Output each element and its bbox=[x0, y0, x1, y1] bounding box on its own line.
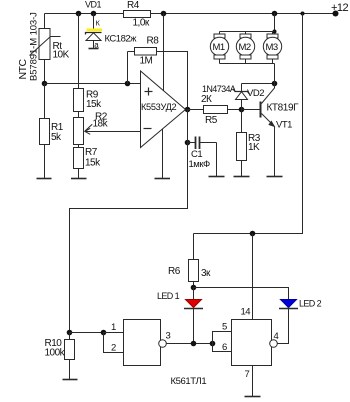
wire: gate2 pin14 supply bbox=[252, 234, 254, 320]
ground (R7) bbox=[71, 178, 87, 180]
ground (C1) bbox=[209, 176, 225, 178]
svg-text:3: 3 bbox=[166, 331, 171, 342]
svg-text:КТ819Г: КТ819Г bbox=[267, 103, 300, 114]
motor M1 bbox=[219, 32, 221, 35]
wire: R6 bottom lead bbox=[193, 282, 195, 288]
wire: VD2 cathode to collector node bbox=[242, 83, 275, 85]
svg-text:2К: 2К bbox=[201, 94, 212, 105]
resistor R3 bbox=[237, 133, 247, 161]
node F: pin14 supply tap bbox=[250, 231, 256, 237]
wire: divider feed from rail (crosses node wire, no junction) bbox=[78, 14, 80, 89]
resistor R7 bbox=[74, 148, 84, 169]
svg-text:1N4734A: 1N4734A bbox=[202, 84, 236, 94]
ground (VT1 emitter) bbox=[267, 176, 283, 178]
svg-text:LED 1: LED 1 bbox=[157, 291, 180, 301]
wire: base node to transistor base bbox=[242, 109, 261, 111]
node I: R10 junction bbox=[67, 330, 73, 336]
svg-text:6: 6 bbox=[222, 342, 227, 353]
wire: output to R5 bbox=[186, 109, 204, 111]
svg-text:VD1: VD1 bbox=[85, 0, 102, 10]
svg-text:R8: R8 bbox=[147, 36, 160, 47]
wire: node A to op-amp non-inverting input bbox=[45, 83, 141, 85]
logic gate DD1.2 (K561TL1) bbox=[232, 320, 272, 366]
logic gate DD1.1 (K561TL1) bbox=[124, 320, 161, 366]
wire: R9 to R2 bbox=[78, 112, 80, 118]
ground (VD1 anode) bbox=[89, 48, 99, 50]
wire: motor top bus bbox=[220, 31, 275, 33]
svg-text:К561ТЛ1: К561ТЛ1 bbox=[171, 376, 207, 387]
svg-text:3к: 3к bbox=[201, 268, 211, 279]
node: rail tap R6/K561 supply bbox=[301, 12, 305, 16]
svg-text:14: 14 bbox=[241, 307, 251, 318]
wire: R1 bottom lead bbox=[44, 145, 46, 179]
node B: non-inverting input / R8 feedback junction bbox=[125, 81, 131, 87]
svg-text:5: 5 bbox=[222, 322, 227, 333]
resistor R9 bbox=[74, 89, 84, 112]
svg-text:4: 4 bbox=[274, 331, 279, 342]
svg-text:VT1: VT1 bbox=[276, 120, 292, 131]
svg-text:R6: R6 bbox=[168, 266, 181, 277]
wire: bottom bus to collector node bbox=[274, 64, 276, 84]
svg-text:К553УД2: К553УД2 bbox=[141, 102, 177, 112]
wire: R2 to R7 bbox=[78, 145, 80, 148]
svg-text:М2: М2 bbox=[239, 42, 251, 53]
wire: R5 to base node bbox=[228, 109, 242, 111]
svg-text:1: 1 bbox=[111, 322, 116, 333]
wire: C1 to ground bbox=[216, 143, 218, 177]
node K: LED1 cathode junction bbox=[191, 341, 197, 347]
wire: gate1 pin1 bbox=[104, 332, 124, 334]
node E: collector node bbox=[272, 81, 278, 87]
wire: gate2 pin5 bbox=[213, 332, 232, 344]
wire: R3 bottom lead bbox=[241, 161, 243, 177]
svg-text:R5: R5 bbox=[205, 115, 218, 126]
ground (R10) bbox=[63, 379, 78, 381]
wire: motor feed drop from rail bbox=[274, 14, 276, 32]
svg-text:15k: 15k bbox=[85, 158, 101, 169]
svg-text:100k: 100k bbox=[45, 348, 66, 359]
wire: LED2 cathode to gate2 output bbox=[277, 309, 289, 344]
wire: gate2 pin6 bbox=[213, 344, 232, 352]
svg-text:М1: М1 bbox=[213, 42, 225, 53]
wire: gate1 output to gate2 inputs bbox=[167, 343, 213, 345]
svg-text:1М: 1М bbox=[140, 56, 153, 67]
wire: R2 wiper to op-amp inverting input bbox=[85, 131, 141, 133]
node: rail tap VD1 bbox=[91, 11, 97, 17]
svg-text:LED 2: LED 2 bbox=[299, 299, 322, 309]
ground (op-amp V-) bbox=[155, 178, 171, 180]
svg-text:VD2: VD2 bbox=[247, 88, 264, 99]
node J: gate1 input tie bbox=[101, 330, 107, 336]
wire: feedback from output node to logic input bbox=[70, 110, 188, 333]
wire: gate2 output pin4 bbox=[278, 343, 289, 345]
wire: tie-down to pin2 bbox=[104, 333, 124, 353]
node A: thermistor divider junction bbox=[42, 81, 48, 87]
ground (R3) bbox=[234, 176, 250, 178]
node D: transistor base node bbox=[239, 107, 245, 113]
node: rail tap op-amp V+ bbox=[161, 11, 167, 17]
potentiometer R2 bbox=[74, 118, 84, 145]
wire: op-amp V+ supply pin bbox=[163, 14, 165, 91]
svg-text:2: 2 bbox=[111, 343, 116, 354]
svg-text:R7: R7 bbox=[85, 147, 98, 158]
wire: R6 top lead bbox=[193, 234, 195, 260]
+12 terminal bbox=[333, 11, 339, 17]
svg-text:К: К bbox=[96, 19, 101, 28]
svg-text:R4: R4 bbox=[127, 0, 140, 11]
node: rail tap R9 divider bbox=[76, 11, 82, 17]
svg-text:B57891-M 103-J: B57891-M 103-J bbox=[29, 12, 40, 81]
resistor R1 bbox=[40, 119, 50, 145]
+12 power rail wire bbox=[45, 13, 124, 15]
wire: Rt bottom to node A bbox=[44, 60, 46, 84]
wire: LED1 cathode to gate output wire bbox=[193, 309, 195, 344]
svg-text:10K: 10K bbox=[53, 50, 70, 61]
svg-text:15k: 15k bbox=[86, 99, 102, 110]
wire: VD1 cathode lead bbox=[93, 14, 95, 30]
wire: Rt top lead bbox=[44, 14, 46, 29]
svg-text:18k: 18k bbox=[93, 119, 109, 130]
wire: gate2 pin7 to ground bbox=[252, 366, 254, 397]
node: motor top bus corner bbox=[273, 30, 277, 34]
node H: C1 tap bbox=[185, 140, 191, 146]
wire: R3 top lead bbox=[241, 110, 243, 133]
motor M2 bbox=[245, 32, 247, 35]
node: rail tap motors bbox=[272, 11, 278, 17]
wire: R8 left lead down to node B bbox=[127, 52, 129, 84]
svg-text:+12: +12 bbox=[331, 2, 349, 14]
svg-text:7: 7 bbox=[245, 369, 250, 380]
svg-text:М3: М3 bbox=[266, 42, 278, 53]
thermistor Rt bbox=[39, 29, 50, 60]
svg-text:5k: 5k bbox=[51, 132, 62, 143]
node G: LED feed node bbox=[191, 285, 197, 291]
svg-text:1K: 1K bbox=[248, 142, 260, 153]
wire: LED feed to LED2 bbox=[194, 288, 289, 300]
ground (pin 7) bbox=[245, 396, 261, 398]
wire: supply drop to LED/logic section bbox=[194, 14, 303, 234]
node L: gate2 input tie bbox=[210, 341, 216, 347]
wire: emitter to ground bbox=[274, 127, 276, 177]
LED 2 (blue) bbox=[281, 300, 297, 308]
wire: R8 right lead to output node bbox=[157, 52, 188, 110]
motor M3 bbox=[272, 32, 274, 35]
svg-text:1,0к: 1,0к bbox=[133, 18, 150, 29]
wire: node I to gate1 inputs bbox=[70, 332, 104, 334]
ground (R1) bbox=[37, 178, 52, 180]
node C: op-amp output bbox=[185, 107, 191, 113]
wire: op-amp V- supply pin bbox=[162, 129, 164, 179]
svg-text:КС182ж: КС182ж bbox=[105, 34, 138, 45]
wire: motor bottom bus bbox=[220, 63, 275, 65]
transistor VT1 KT819G bbox=[260, 102, 262, 118]
wire: node A to R1 bbox=[44, 84, 46, 119]
wire: R7 bottom lead bbox=[78, 169, 80, 179]
capacitor C1 bbox=[188, 142, 196, 144]
svg-text:1мкФ: 1мкФ bbox=[189, 159, 210, 170]
op-amp U1 K553UD2 bbox=[141, 71, 186, 148]
svg-text:NTC: NTC bbox=[17, 59, 29, 80]
